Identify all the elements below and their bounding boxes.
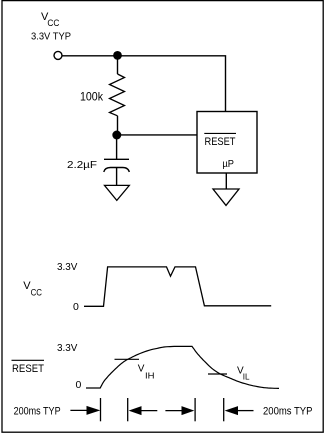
arrow 200ms left bbox=[70, 406, 100, 415]
junction node A bbox=[113, 51, 122, 60]
svg-text:100k: 100k bbox=[80, 89, 104, 103]
net VCC label bbox=[31, 11, 71, 42]
terminal VCC input bbox=[54, 51, 62, 59]
timing tick 4 bbox=[223, 398, 225, 421]
label VCC (waveform axis) bbox=[23, 280, 42, 298]
label RESET (waveform axis) bbox=[12, 360, 45, 375]
microprocessor U1 box bbox=[197, 112, 257, 174]
svg-text:CC: CC bbox=[47, 18, 59, 28]
dashed span arrow left half bbox=[129, 406, 158, 415]
timing tick 3 bbox=[194, 398, 196, 421]
svg-text:IL: IL bbox=[243, 372, 250, 381]
capacitor C1 bbox=[104, 159, 130, 172]
threshold tick VIL bbox=[208, 373, 227, 375]
RESET waveform trace bbox=[86, 346, 279, 388]
wire capacitor to ground bbox=[116, 168, 118, 186]
ground (uP) bbox=[213, 189, 239, 205]
wire VCC terminal to uP top bbox=[62, 56, 226, 112]
junction node B bbox=[112, 131, 121, 140]
svg-text:0: 0 bbox=[76, 379, 82, 391]
threshold tick VIH bbox=[115, 358, 140, 360]
svg-text:RESET: RESET bbox=[12, 363, 44, 375]
label VIH bbox=[138, 364, 155, 381]
svg-text:IH: IH bbox=[145, 371, 155, 380]
pin RESET label bbox=[204, 133, 236, 148]
wire uP to ground bbox=[225, 173, 227, 189]
svg-text:3.3V: 3.3V bbox=[57, 342, 77, 354]
svg-text:2.2µF: 2.2µF bbox=[67, 160, 97, 171]
svg-text:200ms TYP: 200ms TYP bbox=[263, 406, 313, 418]
svg-text:V: V bbox=[138, 364, 145, 375]
arrow 200ms right bbox=[225, 406, 254, 415]
wire node B to RESET pin bbox=[117, 134, 197, 136]
wire node A to resistor bbox=[117, 56, 119, 74]
timing tick 2 bbox=[127, 398, 129, 421]
resistor R1 100k bbox=[110, 74, 125, 116]
svg-text:0: 0 bbox=[73, 301, 79, 313]
dashed span arrow right half bbox=[165, 406, 194, 415]
label VIL bbox=[237, 366, 250, 382]
ground (capacitor) bbox=[105, 185, 130, 200]
svg-text:RESET: RESET bbox=[205, 136, 236, 148]
wire resistor to node B bbox=[117, 116, 119, 135]
svg-text:200ms TYP: 200ms TYP bbox=[14, 406, 61, 418]
svg-text:µP: µP bbox=[222, 158, 234, 170]
svg-text:3.3V TYP: 3.3V TYP bbox=[31, 31, 71, 42]
wire node B to capacitor bbox=[116, 135, 118, 159]
svg-text:3.3V: 3.3V bbox=[57, 261, 77, 273]
svg-text:CC: CC bbox=[31, 288, 43, 298]
timing tick 1 bbox=[100, 398, 102, 421]
VCC waveform trace bbox=[84, 267, 271, 306]
